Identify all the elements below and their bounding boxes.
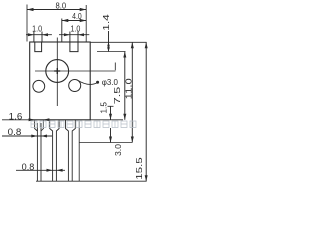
leader dot	[96, 81, 99, 84]
1.5 arrow down	[109, 114, 112, 120]
svg-text:15.5: 15.5	[135, 157, 144, 180]
slot bottom extension to right	[97, 51, 126, 53]
svg-text:1.0: 1.0	[32, 24, 42, 33]
pin tips line	[36, 180, 147, 182]
svg-text:8.0: 8.0	[56, 1, 67, 10]
mechanical outline drawing of trimmer potentiometer, 151x184	[0, 0, 151, 184]
pin 2	[50, 120, 53, 181]
svg-text:φ3.0: φ3.0	[102, 78, 119, 87]
slot left	[35, 42, 42, 52]
7.5 arrows	[123, 52, 126, 58]
15.5 arrows	[145, 42, 148, 48]
4.0 arrows	[62, 19, 69, 22]
15.5 dim line	[145, 42, 147, 181]
svg-text:1.0: 1.0	[70, 24, 80, 33]
svg-text:7.5: 7.5	[113, 86, 122, 104]
dimension texts	[8, 1, 144, 179]
dim 8.0 line	[27, 9, 86, 11]
leader curve to phi3.0	[77, 80, 98, 85]
0.8#1 arrows	[31, 135, 37, 138]
svg-text:4.0: 4.0	[72, 12, 82, 21]
7.5 dim line	[124, 52, 126, 120]
svg-text:1.4: 1.4	[102, 14, 111, 31]
11.0 arrows	[131, 42, 134, 48]
body outline	[30, 42, 90, 120]
svg-text:3.0: 3.0	[114, 144, 123, 156]
dim 1.0 left	[26, 34, 52, 36]
0.8 #2 dim line	[16, 169, 65, 171]
svg-text:1.6: 1.6	[9, 112, 23, 122]
1.0L outside arrows	[28, 33, 34, 36]
1.4 arrows (between lines)	[107, 42, 110, 46]
0.8 #1 dim line	[2, 135, 52, 137]
kink line	[79, 142, 132, 144]
svg-text:11.0: 11.0	[125, 78, 134, 100]
3.0 arrow down	[109, 137, 112, 143]
1.6 arrows on body bottom line	[29, 118, 35, 121]
11.0 dim line	[131, 42, 133, 142]
extension line right of pins	[78, 121, 80, 181]
watermark pseudo-glyph row	[31, 121, 136, 128]
crosshair vertical	[56, 38, 58, 107]
1.5 dim	[110, 106, 112, 120]
svg-text:0.8: 0.8	[8, 127, 22, 137]
3.0 dim	[110, 128, 112, 143]
arrowheads	[27, 8, 148, 181]
svg-text:1.5: 1.5	[100, 102, 109, 114]
pin 3	[66, 120, 69, 181]
crosshair horizontal	[35, 70, 116, 72]
0.8#2 arrows	[47, 169, 53, 172]
dim 4.0 line	[62, 20, 86, 22]
8.0 arrows	[27, 8, 34, 11]
top edge extension to right	[90, 41, 146, 43]
small circle right	[69, 80, 81, 92]
body bottom extension left and right	[2, 119, 30, 121]
small circle left	[33, 80, 45, 92]
dim 1.0 right	[59, 34, 89, 36]
slot right	[70, 42, 78, 52]
svg-text:0.8: 0.8	[22, 162, 35, 172]
big circle	[46, 60, 69, 83]
small vertical stroke above crosshair end	[114, 63, 116, 71]
1.0R outside arrows	[64, 33, 70, 36]
1.4 dim leader	[108, 31, 110, 42]
pin 1	[35, 120, 38, 181]
